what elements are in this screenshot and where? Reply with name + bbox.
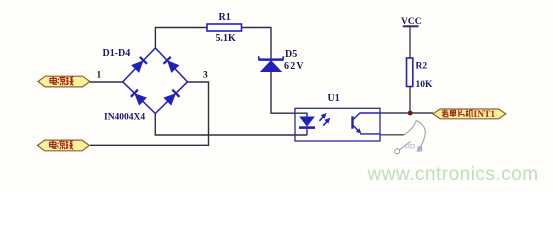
watermark stamp graphic [395,121,426,154]
U1 phototransistor [353,113,381,134]
svg-text:www.cntronics.com: www.cntronics.com [367,164,539,185]
zener diode D5 [259,56,284,71]
svg-text:IN4004X4: IN4004X4 [104,113,145,123]
VCC power symbol [403,25,419,27]
U1 light arrow 2 [323,119,329,126]
svg-text:R2: R2 [416,62,428,72]
glyph 电 [50,77,57,85]
glyph 单 [450,110,457,117]
net label 电源线 (bottom left) [38,140,90,151]
U1 light arrow 1 [320,114,326,121]
U1 internal LED [299,113,315,136]
wire: R2 bottom to junction [409,87,411,114]
net label 去单片机INT1 (right) [433,109,506,120]
svg-text:R1: R1 [219,12,231,23]
wire: bridge top corner up and right to R1 [155,28,207,49]
wire: bridge pin 3 right then down then left to net label2 [90,82,209,145]
wire: U1 emitter stub [380,134,404,136]
bridge rectifier D1-D4 diamond [123,48,188,114]
resistor R2 [407,58,413,87]
svg-text:3: 3 [203,71,208,81]
svg-text:D1-D4: D1-D4 [103,48,131,59]
svg-text:INT1: INT1 [474,110,496,120]
glyph 片 [459,110,464,117]
diode D4 bottom-right edge [164,90,179,105]
wire: D5 anode down then right to U1 LED anode [271,72,307,114]
glyph 源 [58,77,66,85]
glyph 线 [66,77,74,85]
diode D2 top-right edge [163,57,178,72]
wire: VCC to R2 top [409,26,411,58]
wire: net label1 to bridge pin 1 [90,81,123,83]
svg-text:10K: 10K [416,80,434,90]
resistor R1 [207,24,242,31]
optocoupler U1 box [295,108,380,141]
svg-text:D5: D5 [285,49,297,60]
svg-text:62V: 62V [284,61,305,72]
glyph 机 [466,110,473,117]
wire: U1 LED cathode left to bridge bottom corner [155,114,307,136]
svg-text:5.1K: 5.1K [216,33,237,44]
wire: R1 right to corner down to D5 cathode [242,28,272,59]
diode D3 bottom-left edge [131,90,146,105]
svg-text:1: 1 [97,71,102,81]
svg-text:U1: U1 [328,93,340,104]
svg-text:VCC: VCC [401,17,422,27]
junction dot [408,111,413,116]
diode D1 top-left edge [132,57,147,72]
glyph 去 [442,110,449,117]
net label 电源线 (top left) [38,76,90,87]
wire: U1 collector to junction to INT1 label [380,112,433,114]
